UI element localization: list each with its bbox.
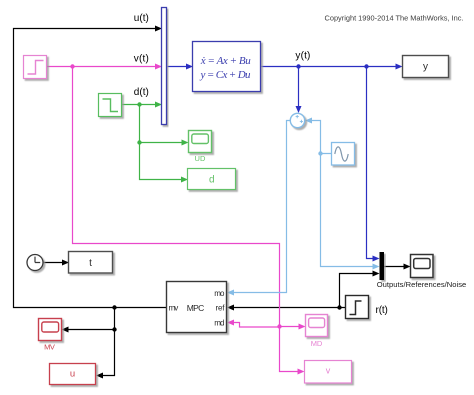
- outport t: [69, 252, 113, 274]
- svg-text:md: md: [214, 319, 224, 328]
- svg-text:t: t: [89, 258, 92, 269]
- wire: v branch to MD scope: [280, 326, 301, 328]
- MPC controller block: [167, 282, 227, 333]
- wire: mux2 to scope: [384, 266, 405, 268]
- arrow into UD scope: [182, 140, 189, 146]
- wire: MPC mv output loop to plant mux (u): [14, 29, 167, 308]
- step source v (magenta): [24, 56, 47, 79]
- wire: y(t) state-space to y outport: [261, 66, 398, 68]
- scope MV: [39, 319, 62, 341]
- wire: v step to plant mux: [47, 66, 157, 68]
- arrow into MV scope: [62, 327, 69, 333]
- arrow into t block: [62, 260, 69, 266]
- arrow into plant mux u: [155, 26, 162, 32]
- wire: sine to sum and mux2: [311, 121, 375, 267]
- mux Mux1 (plant inputs): [162, 8, 167, 125]
- arrow into sum right: [305, 118, 312, 124]
- outport v: [305, 361, 352, 384]
- wire: branch to MV scope: [68, 329, 115, 331]
- svg-text:y(t): y(t): [295, 51, 310, 62]
- arrow into sum top: [296, 106, 302, 113]
- wire: plant mux to state-space: [167, 66, 187, 68]
- svg-text:y: y: [423, 62, 428, 73]
- node: r(t) junction: [337, 305, 341, 309]
- arrow into MPC ref: [227, 305, 234, 311]
- mux Mux2 (black bar): [380, 252, 385, 280]
- node: v junction 2: [277, 324, 281, 328]
- arrow into mux2 from sine: [373, 264, 380, 270]
- outport y: [403, 56, 449, 78]
- node: v junction 1: [70, 64, 74, 68]
- scope Outputs/References/Noise: [411, 255, 434, 278]
- wire: d branch down to d block: [140, 105, 183, 180]
- arrow into MPC mo: [227, 290, 234, 296]
- clock: [27, 255, 43, 271]
- arrow into state-space: [186, 64, 193, 70]
- svg-text:Copyright 1990-2014 The MathWo: Copyright 1990-2014 The MathWorks, Inc.: [325, 14, 464, 23]
- svg-text:UD: UD: [195, 154, 206, 163]
- arrow into plant mux v: [155, 64, 162, 70]
- svg-text:MPC: MPC: [187, 303, 205, 313]
- wire: y(t) branch to mux2: [367, 67, 375, 259]
- state-space block U1: [193, 42, 261, 92]
- svg-text:ẋ = Ax + Bu: ẋ = Ax + Bu: [200, 55, 252, 67]
- svg-text:ref: ref: [216, 304, 226, 313]
- svg-text:mo: mo: [214, 289, 225, 298]
- wire: clock to t: [43, 262, 63, 264]
- wire: v branch to MPC md: [234, 323, 280, 328]
- node: d junction 2: [137, 140, 141, 144]
- scope MD: [306, 315, 328, 337]
- svg-text:MD: MD: [311, 339, 323, 348]
- wire: r(t) branch to mux2: [340, 274, 375, 308]
- node: y(t) junction 2: [364, 64, 368, 68]
- step source r(t): [346, 296, 369, 319]
- svg-text:y = Cx + Du: y = Cx + Du: [200, 69, 252, 81]
- step source d (green, step down): [99, 94, 122, 117]
- wire: v branch down and across to v display: [73, 67, 300, 372]
- arrow into v block: [298, 369, 305, 375]
- node: mv line junction: [112, 305, 116, 309]
- node: MV branch junction: [112, 327, 116, 331]
- arrow into u block: [96, 373, 103, 379]
- scope UD: [189, 131, 212, 153]
- svg-text:v: v: [326, 366, 331, 376]
- sum block (noise adder): [290, 113, 304, 127]
- arrow into MD scope: [299, 324, 306, 330]
- arrow into MPC md: [227, 320, 234, 326]
- arrow into scope: [404, 264, 411, 270]
- wire: sum output to MPC mo: [234, 121, 291, 293]
- svg-text:Outputs/References/Noise: Outputs/References/Noise: [377, 280, 467, 289]
- wire: branch down from mv line: [102, 308, 115, 376]
- arrow into mux2 from y(t): [373, 256, 380, 262]
- svg-text:d: d: [209, 175, 215, 186]
- wire: d step to plant mux: [122, 104, 157, 106]
- arrow into y outport: [396, 64, 403, 70]
- node: d junction 1: [137, 102, 141, 106]
- outport d: [188, 169, 236, 190]
- arrow into mux2 from r(t): [373, 271, 380, 277]
- arrow into plant mux d: [155, 102, 162, 108]
- svg-text:u: u: [70, 369, 75, 380]
- svg-text:r(t): r(t): [376, 305, 388, 316]
- arrow into d block: [181, 177, 188, 183]
- svg-text:mv: mv: [169, 304, 179, 313]
- sine wave source: [332, 143, 355, 166]
- wire: d branch to UD scope: [140, 142, 183, 144]
- svg-text:MV: MV: [44, 343, 55, 352]
- svg-text:d(t): d(t): [134, 87, 149, 98]
- wire: r(t) to MPC ref: [234, 307, 346, 309]
- wire: y(t) branch to sum: [298, 67, 300, 108]
- outport u: [50, 364, 96, 385]
- node: sine junction: [318, 151, 322, 155]
- node: y(t) junction 1: [296, 64, 300, 68]
- svg-text:u(t): u(t): [134, 13, 149, 24]
- svg-text:v(t): v(t): [134, 54, 149, 65]
